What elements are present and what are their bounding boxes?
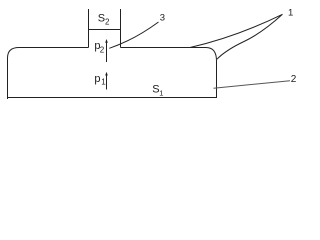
svg-text:3: 3 — [160, 12, 165, 23]
svg-text:S: S — [98, 13, 105, 25]
p2 arrow — [106, 41, 108, 62]
p1 arrow — [106, 74, 108, 90]
svg-text:1: 1 — [101, 78, 106, 87]
S2 dimension line — [89, 29, 121, 31]
tube left wall — [88, 9, 90, 48]
svg-text:1: 1 — [159, 89, 163, 98]
svg-text:p: p — [94, 73, 100, 85]
svg-text:1: 1 — [288, 8, 293, 19]
leader line 2 — [214, 81, 291, 89]
vessel body outline — [8, 48, 217, 100]
svg-text:2: 2 — [291, 74, 297, 85]
leader lines to 1 — [190, 14, 283, 59]
svg-text:2: 2 — [105, 17, 110, 26]
leader line 3 — [109, 22, 158, 48]
svg-text:2: 2 — [100, 46, 105, 55]
tube right wall — [120, 9, 122, 48]
